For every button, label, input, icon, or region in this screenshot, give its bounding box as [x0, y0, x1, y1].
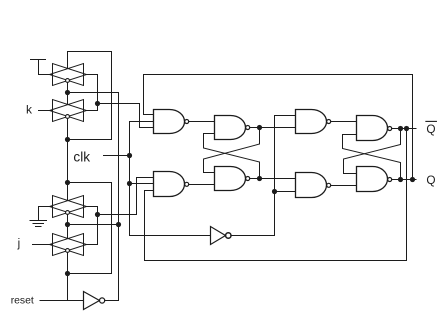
- TG1 inverted-control bubble: [66, 79, 70, 83]
- svg-text:Q: Q: [426, 122, 435, 136]
- wire: clkbar branch to NAND N6 input 2: [275, 191, 296, 193]
- wire: k input: [39, 110, 53, 112]
- transmission gate TG2 (k): [50, 100, 87, 122]
- wire: clk vertical rail with corner to NAND U1 input 2, down to inverter U5 input: [130, 122, 211, 236]
- wire: TG4 bubble down to node (67.5,273.5): [67, 252, 69, 273]
- Qbar cross-couple junction dot: [398, 126, 403, 131]
- wire: top rail (Q feedback) to NAND U1 input 1: [144, 75, 413, 180]
- wire: slave cross-couple from Q to U7 input 2: [343, 135, 401, 180]
- j-node junction dot: [95, 212, 100, 217]
- wire: TG2 output up to k-node: [87, 104, 98, 111]
- transmission gate TG3: [50, 196, 87, 218]
- wire: Qbar output row: [392, 128, 416, 130]
- transmission gate TG4 (j): [50, 234, 87, 256]
- U6 output bubble: [100, 298, 105, 303]
- svg-text:clk: clk: [73, 149, 90, 164]
- wire: TG4 output up to j-node: [87, 215, 98, 245]
- wire: clk branch to NAND U2 input 2: [130, 183, 154, 185]
- junction dot at (67.5,182.5): [65, 180, 70, 185]
- junction dot at (118.5,224.5): [116, 222, 121, 227]
- NAND N6 (slave J gate): [296, 172, 327, 197]
- wire: ground to TG3 input: [39, 206, 53, 208]
- TG4 inverted-control bubble: [66, 249, 70, 253]
- wire: U4 output row to NAND N6 input 1: [250, 178, 296, 180]
- wire: bottom rail (Qbar feedback) to NAND U2 input 3: [145, 129, 407, 261]
- U3 output bubble: [246, 126, 250, 130]
- logic-high stub (input bar to TG1): [31, 60, 53, 75]
- U1 output bubble: [185, 120, 189, 124]
- wire: node (67.5,182.5) loop right-down to node (67.5,273.5): [68, 183, 112, 274]
- junction dot at (67.5,273.5): [65, 271, 70, 276]
- wire: N6 output to NAND U8 input 2: [331, 185, 357, 187]
- NAND U1 (master K gate): [154, 110, 185, 134]
- svg-text:Q: Q: [426, 173, 435, 187]
- wire: inverted clock rail to NAND N5 input 1: [231, 116, 296, 236]
- U5 output bubble: [226, 233, 231, 238]
- transmission gate TG1: [50, 64, 87, 86]
- wire: node km to TG2 top control: [67, 93, 69, 105]
- clk junction dot at NAND U2 branch: [127, 181, 132, 186]
- U4 output junction dot: [257, 176, 262, 181]
- wire: TG1 top control loop to node at (67.5,139.5): [68, 52, 112, 140]
- wire: reset input to inverter U6: [40, 300, 84, 302]
- U8 output bubble: [388, 178, 392, 182]
- svg-text:k: k: [26, 102, 33, 116]
- junction dot at (67.5,139.5): [65, 137, 70, 142]
- wire: link node (67.5,224.5) to long vertical at x=118.5: [68, 224, 119, 226]
- wire: TG1 output to k-node: [87, 75, 98, 104]
- wire: slave cross-couple from Qbar to U8 input 1: [344, 129, 401, 174]
- k-node junction dot: [95, 101, 100, 106]
- wire: node km right, long vertical down to reset inverter output: [68, 93, 119, 301]
- NAND N5 (slave K gate): [296, 110, 327, 134]
- wire: node (67.5,182.5) down to TG3 top control: [67, 183, 69, 201]
- wire: TG2 bubble down through node (67.5,139.5) to node (67.5,182.5): [67, 118, 69, 182]
- wire: node (67.5,224.5) down to TG4 top control: [67, 225, 69, 239]
- U4 output bubble: [246, 177, 250, 181]
- wire: TG3 bubble down to node (67.5,224.5): [67, 214, 69, 224]
- NAND U2 (master J gate): [154, 171, 185, 196]
- wire: j input: [33, 244, 53, 246]
- wire: j-node to NAND U2 input 1: [98, 178, 154, 215]
- U7 output bubble: [388, 127, 392, 131]
- svg-text:reset: reset: [11, 296, 34, 307]
- N5 output bubble: [327, 120, 331, 124]
- node km junction dot: [65, 90, 70, 95]
- wire: NAND U2 output to NAND U4 input 2: [189, 184, 215, 186]
- Q cross-couple junction dot: [398, 177, 403, 182]
- TG2 inverted-control bubble: [66, 115, 70, 119]
- svg-text:j: j: [17, 238, 21, 250]
- NAND U7 (slave latch top, Qbar): [357, 116, 388, 141]
- wire: TG1 bubble down to node km: [67, 82, 69, 92]
- Q to top-rail junction dot: [410, 177, 415, 182]
- wire: master cross-couple from U4 output to U3 input 2: [204, 134, 260, 179]
- junction dot at (67.5,224.5): [65, 222, 70, 227]
- wire: node (67.5,273.5) down to reset line: [67, 274, 69, 301]
- inverter U6 (reset): [84, 292, 100, 310]
- wire: U3 output row to NAND N5 input 2: [250, 127, 296, 129]
- clkbar junction dot: [272, 189, 277, 194]
- N6 output bubble: [327, 183, 331, 187]
- ground: [30, 207, 47, 227]
- NAND U8 (slave latch bottom, Q): [357, 167, 388, 192]
- wire: NAND U1 output to NAND U3 input 1: [189, 121, 215, 123]
- U2 output bubble: [185, 182, 189, 186]
- wire: master cross-couple from U3 output to U4 input 1: [204, 128, 260, 173]
- wire: TG3 output down to j-node: [87, 207, 98, 215]
- NAND U3 (master latch top): [215, 116, 246, 140]
- inverter U5 (clock): [211, 227, 226, 245]
- NAND U4 (master latch bottom): [215, 167, 246, 191]
- clk junction dot: [127, 153, 132, 158]
- wire: Q output row: [392, 179, 416, 181]
- wire: N5 output to NAND U7 input 1: [331, 121, 357, 123]
- wire: clk input to clk junction: [104, 155, 130, 157]
- Qbar to bottom-rail junction dot: [404, 126, 409, 131]
- U3 output junction dot: [257, 125, 262, 130]
- label Qbar: [426, 121, 437, 135]
- wire: k-node to NAND U1 input 3: [98, 104, 154, 128]
- TG3 inverted-control bubble: [66, 211, 70, 215]
